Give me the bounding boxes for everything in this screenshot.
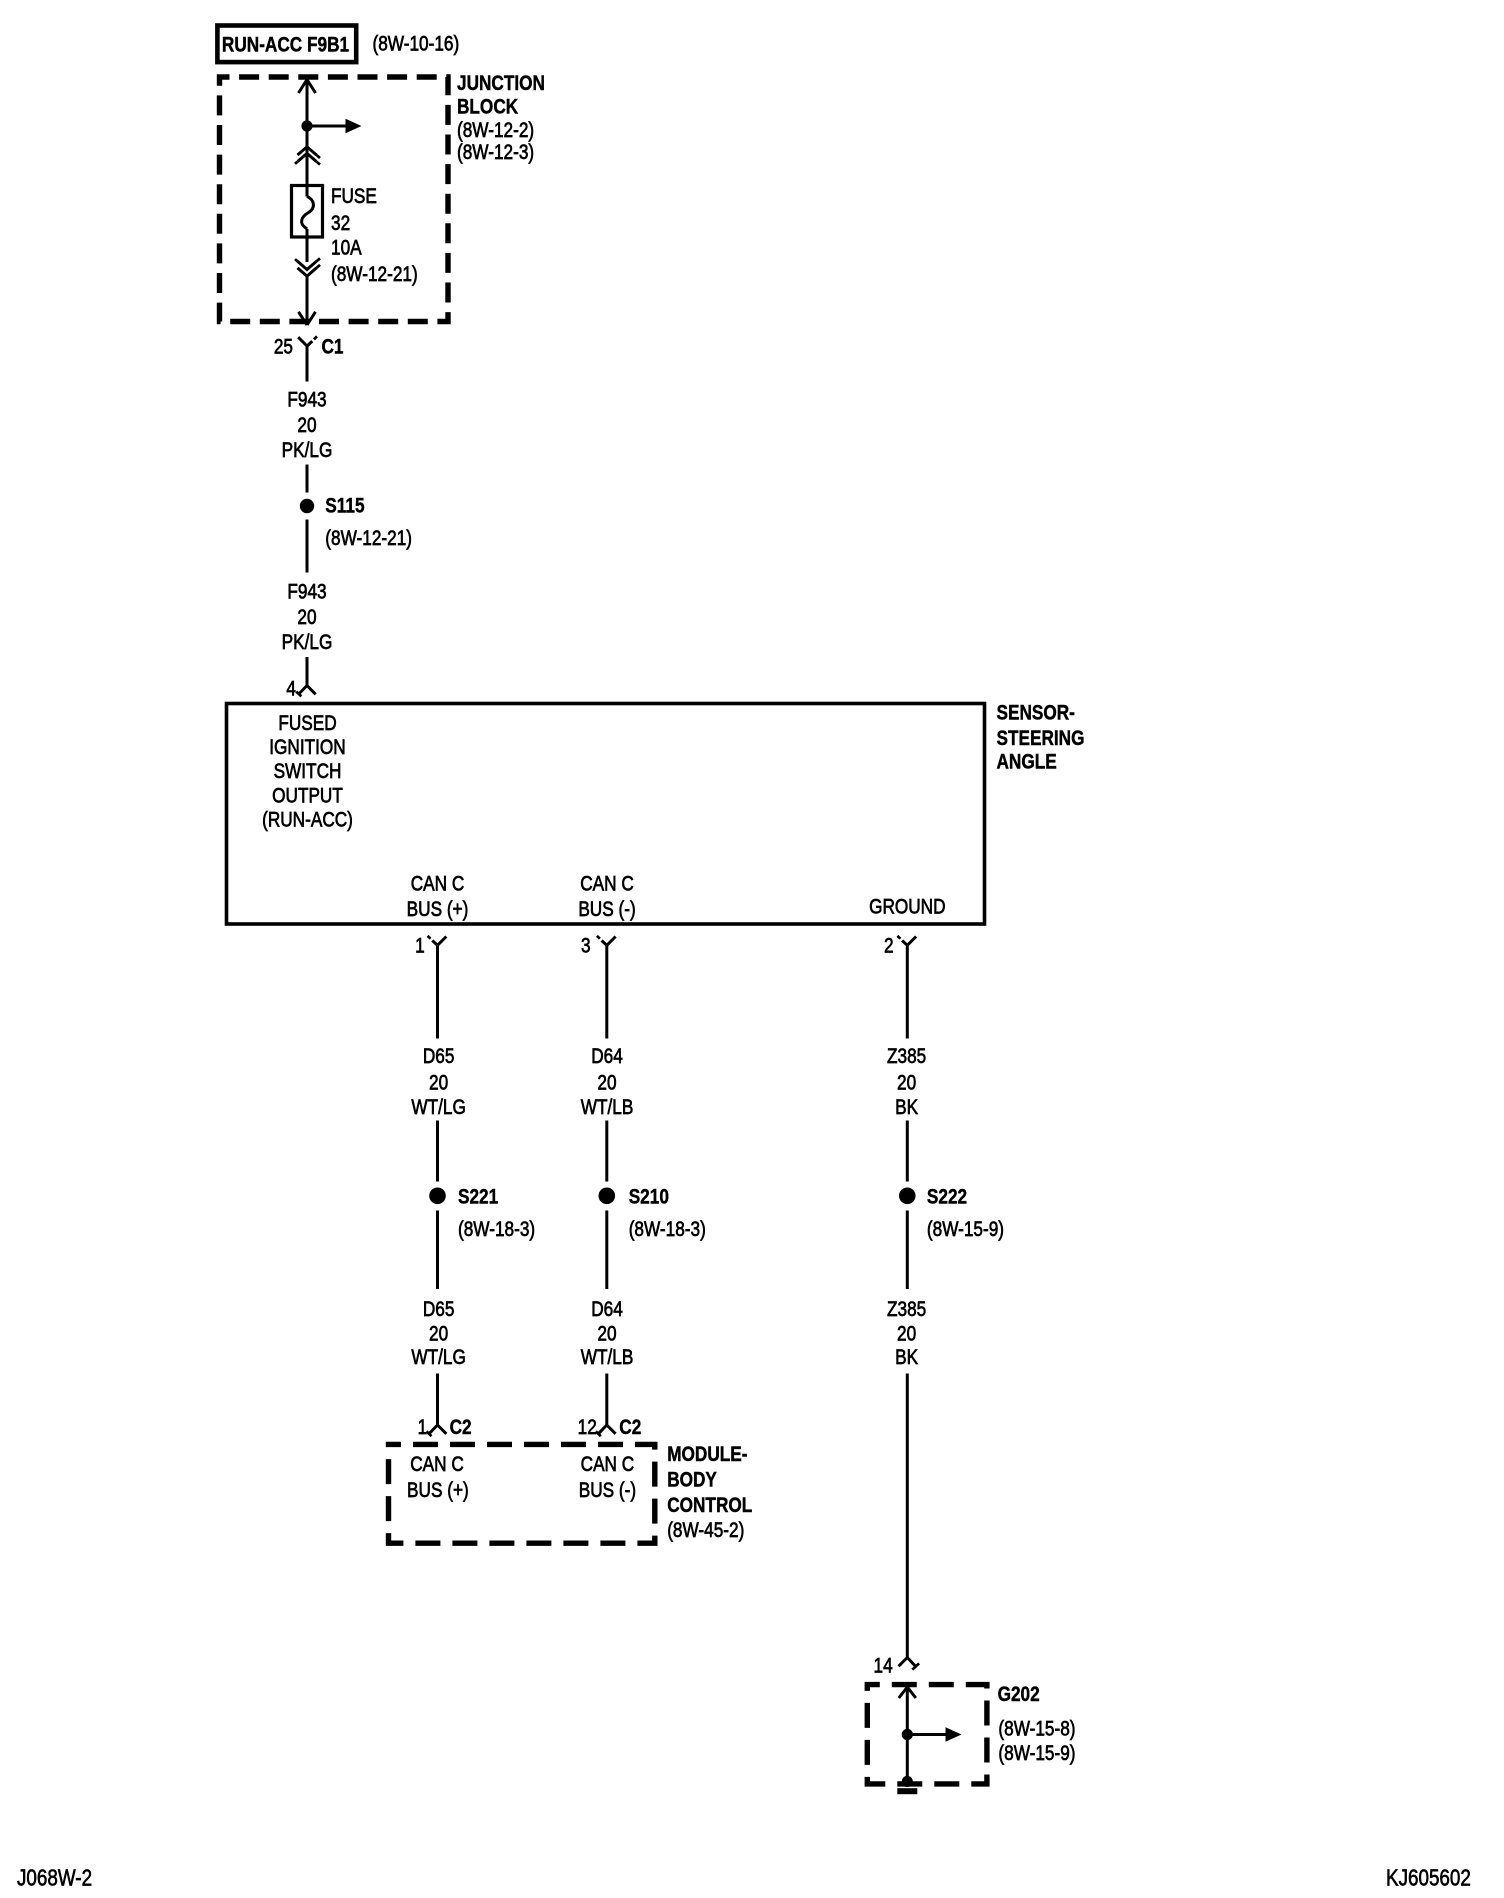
wire xyxy=(605,1374,608,1427)
wire label D64 20 WT/LB xyxy=(581,1298,634,1369)
svg-text:14: 14 xyxy=(874,1655,893,1678)
svg-text:1: 1 xyxy=(418,1416,428,1439)
svg-text:SWITCH: SWITCH xyxy=(274,761,342,784)
svg-text:GROUND: GROUND xyxy=(869,896,945,919)
module-body control dashed box xyxy=(389,1444,655,1543)
svg-text:D64: D64 xyxy=(591,1298,623,1321)
svg-text:3: 3 xyxy=(581,935,591,958)
svg-text:OUTPUT: OUTPUT xyxy=(272,785,343,808)
svg-text:25: 25 xyxy=(274,336,293,359)
svg-text:(8W-12-2): (8W-12-2) xyxy=(457,120,534,143)
wire xyxy=(436,1121,439,1182)
svg-text:S222: S222 xyxy=(927,1186,967,1209)
sensor-steering angle box xyxy=(227,704,985,925)
wire xyxy=(306,520,309,573)
svg-text:G202: G202 xyxy=(998,1684,1040,1707)
svg-text:(RUN-ACC): (RUN-ACC) xyxy=(262,809,353,832)
svg-text:CAN C: CAN C xyxy=(411,873,465,896)
fuse 32 10A xyxy=(292,185,323,262)
svg-text:Z385: Z385 xyxy=(887,1045,926,1068)
svg-text:F943: F943 xyxy=(287,389,326,412)
wire label Z385 20 BK xyxy=(887,1045,926,1119)
splice S221 xyxy=(429,1186,535,1241)
wire CAN C bus - xyxy=(605,946,608,1039)
svg-text:CAN C: CAN C xyxy=(580,873,634,896)
svg-text:20: 20 xyxy=(429,1072,448,1095)
svg-text:BK: BK xyxy=(895,1096,918,1119)
svg-text:(8W-12-21): (8W-12-21) xyxy=(325,528,412,551)
svg-text:C2: C2 xyxy=(450,1416,472,1439)
svg-text:WT/LB: WT/LB xyxy=(581,1096,634,1119)
svg-text:20: 20 xyxy=(297,607,316,630)
svg-text:KJ605602: KJ605602 xyxy=(1386,1866,1471,1891)
box pin label CAN C BUS (+) xyxy=(407,873,469,921)
connector pin 4 (male fork) xyxy=(286,678,315,701)
svg-text:JUNCTION: JUNCTION xyxy=(457,73,545,96)
svg-text:MODULE-: MODULE- xyxy=(667,1444,747,1467)
wire xyxy=(306,465,309,493)
svg-text:D65: D65 xyxy=(423,1045,455,1068)
svg-text:32: 32 xyxy=(331,212,350,235)
svg-text:(8W-15-8): (8W-15-8) xyxy=(998,1718,1075,1741)
svg-text:4: 4 xyxy=(286,678,296,701)
svg-text:WT/LB: WT/LB xyxy=(581,1347,634,1370)
ground G202 dashed box xyxy=(867,1685,987,1784)
svg-text:20: 20 xyxy=(597,1323,616,1346)
ground node dot xyxy=(902,1729,913,1740)
svg-text:F943: F943 xyxy=(287,581,326,604)
svg-text:BUS (+): BUS (+) xyxy=(407,1479,469,1502)
box title SENSOR-STEERING ANGLE xyxy=(997,702,1085,774)
fuse label xyxy=(331,186,418,287)
svg-text:RUN-ACC F9B1: RUN-ACC F9B1 xyxy=(222,34,349,57)
svg-text:(8W-15-9): (8W-15-9) xyxy=(998,1742,1075,1765)
connector pin 14 (male fork) xyxy=(874,1655,920,1678)
branch arrow to other circuits xyxy=(307,119,362,133)
wire to junction block exit with down arrow xyxy=(299,277,316,326)
wire ground long xyxy=(906,1374,909,1658)
svg-text:2: 2 xyxy=(884,935,894,958)
power feed box RUN-ACC F9B1 xyxy=(217,26,356,63)
svg-text:S115: S115 xyxy=(325,495,365,518)
connector C2 pin 1 (male fork) xyxy=(418,1416,472,1439)
svg-text:FUSED: FUSED xyxy=(278,713,336,736)
splice S115 xyxy=(300,495,412,551)
svg-text:(8W-18-3): (8W-18-3) xyxy=(458,1218,535,1241)
ground symbol xyxy=(897,1776,917,1794)
svg-text:D64: D64 xyxy=(591,1045,623,1068)
svg-text:CAN C: CAN C xyxy=(581,1453,635,1476)
svg-text:BODY: BODY xyxy=(667,1469,717,1492)
wire xyxy=(906,1211,909,1290)
box pin label FUSED IGNITION SWITCH OUTPUT (RUN-ACC) xyxy=(262,713,353,832)
svg-text:20: 20 xyxy=(897,1072,916,1095)
splice S222 xyxy=(899,1186,1004,1241)
svg-text:D65: D65 xyxy=(423,1298,455,1321)
wire feed into junction block with up arrow xyxy=(299,80,316,186)
splice S210 xyxy=(599,1186,706,1241)
wire label F943 20 PK/LG xyxy=(282,581,333,654)
wire label D65 20 WT/LG xyxy=(411,1298,465,1369)
svg-text:CONTROL: CONTROL xyxy=(667,1495,752,1518)
svg-text:10A: 10A xyxy=(331,237,362,260)
svg-text:BUS (-): BUS (-) xyxy=(578,899,635,922)
svg-text:CAN C: CAN C xyxy=(410,1453,464,1476)
junction block label xyxy=(457,73,545,165)
svg-text:S210: S210 xyxy=(629,1186,669,1209)
svg-text:1: 1 xyxy=(415,935,425,958)
ground label G202 xyxy=(998,1684,1076,1766)
wire label D64 20 WT/LB xyxy=(581,1045,634,1119)
svg-text:BUS (-): BUS (-) xyxy=(579,1479,636,1502)
svg-text:WT/LG: WT/LG xyxy=(411,1096,465,1119)
connector pin 2 (female Y) xyxy=(884,935,916,958)
box pin label CAN C BUS (-) xyxy=(578,873,635,921)
svg-text:(8W-45-2): (8W-45-2) xyxy=(667,1520,744,1543)
svg-text:WT/LG: WT/LG xyxy=(411,1347,465,1370)
junction node dot xyxy=(301,120,312,131)
wire CAN C bus + xyxy=(436,946,439,1039)
in-line connector chevrons (upper) xyxy=(295,147,320,165)
wire label D65 20 WT/LG xyxy=(411,1045,465,1119)
svg-text:J068W-2: J068W-2 xyxy=(17,1866,92,1891)
svg-text:BK: BK xyxy=(895,1347,918,1370)
svg-text:ANGLE: ANGLE xyxy=(997,751,1057,774)
svg-text:IGNITION: IGNITION xyxy=(269,737,345,760)
svg-text:12: 12 xyxy=(578,1416,597,1439)
ground entry arrow xyxy=(899,1687,916,1779)
svg-text:PK/LG: PK/LG xyxy=(282,439,333,462)
module box pin label CAN C BUS (+) xyxy=(407,1453,469,1502)
svg-text:(8W-12-21): (8W-12-21) xyxy=(331,264,418,287)
svg-text:(8W-18-3): (8W-18-3) xyxy=(629,1218,706,1241)
svg-text:(8W-12-3): (8W-12-3) xyxy=(457,142,534,165)
wire label F943 20 PK/LG xyxy=(282,389,333,462)
connector pin 3 (female Y) xyxy=(581,935,616,958)
svg-text:(8W-10-16): (8W-10-16) xyxy=(373,33,460,56)
junction block dashed box xyxy=(220,77,449,322)
connector C1 pin 25 (female Y) xyxy=(274,336,344,382)
svg-text:FUSE: FUSE xyxy=(331,186,377,209)
svg-text:(8W-15-9): (8W-15-9) xyxy=(927,1218,1004,1241)
in-line connector chevrons (lower) xyxy=(295,258,320,276)
module title MODULE-BODY CONTROL (8W-45-2) xyxy=(667,1444,752,1543)
wire ground xyxy=(906,946,909,1039)
svg-text:BUS (+): BUS (+) xyxy=(407,899,469,922)
svg-text:BLOCK: BLOCK xyxy=(457,96,518,119)
ground branch arrow xyxy=(907,1727,961,1741)
svg-text:Z385: Z385 xyxy=(887,1298,926,1321)
svg-text:S221: S221 xyxy=(458,1186,498,1209)
wire xyxy=(436,1374,439,1427)
svg-text:C1: C1 xyxy=(322,336,344,359)
svg-text:20: 20 xyxy=(597,1072,616,1095)
connector C2 pin 12 (male fork) xyxy=(578,1416,642,1439)
svg-text:20: 20 xyxy=(429,1323,448,1346)
wire xyxy=(605,1121,608,1182)
svg-text:20: 20 xyxy=(897,1323,916,1346)
wire xyxy=(605,1211,608,1290)
wire xyxy=(436,1211,439,1290)
connector pin 1 (female Y) xyxy=(415,935,446,958)
wire xyxy=(906,1121,909,1182)
svg-text:SENSOR-: SENSOR- xyxy=(997,702,1075,725)
svg-text:C2: C2 xyxy=(619,1416,641,1439)
svg-text:PK/LG: PK/LG xyxy=(282,631,333,654)
wire label Z385 20 BK xyxy=(887,1298,926,1369)
svg-text:20: 20 xyxy=(297,415,316,438)
wire xyxy=(306,657,309,687)
svg-text:STEERING: STEERING xyxy=(997,728,1085,751)
module box pin label CAN C BUS (-) xyxy=(579,1453,636,1502)
